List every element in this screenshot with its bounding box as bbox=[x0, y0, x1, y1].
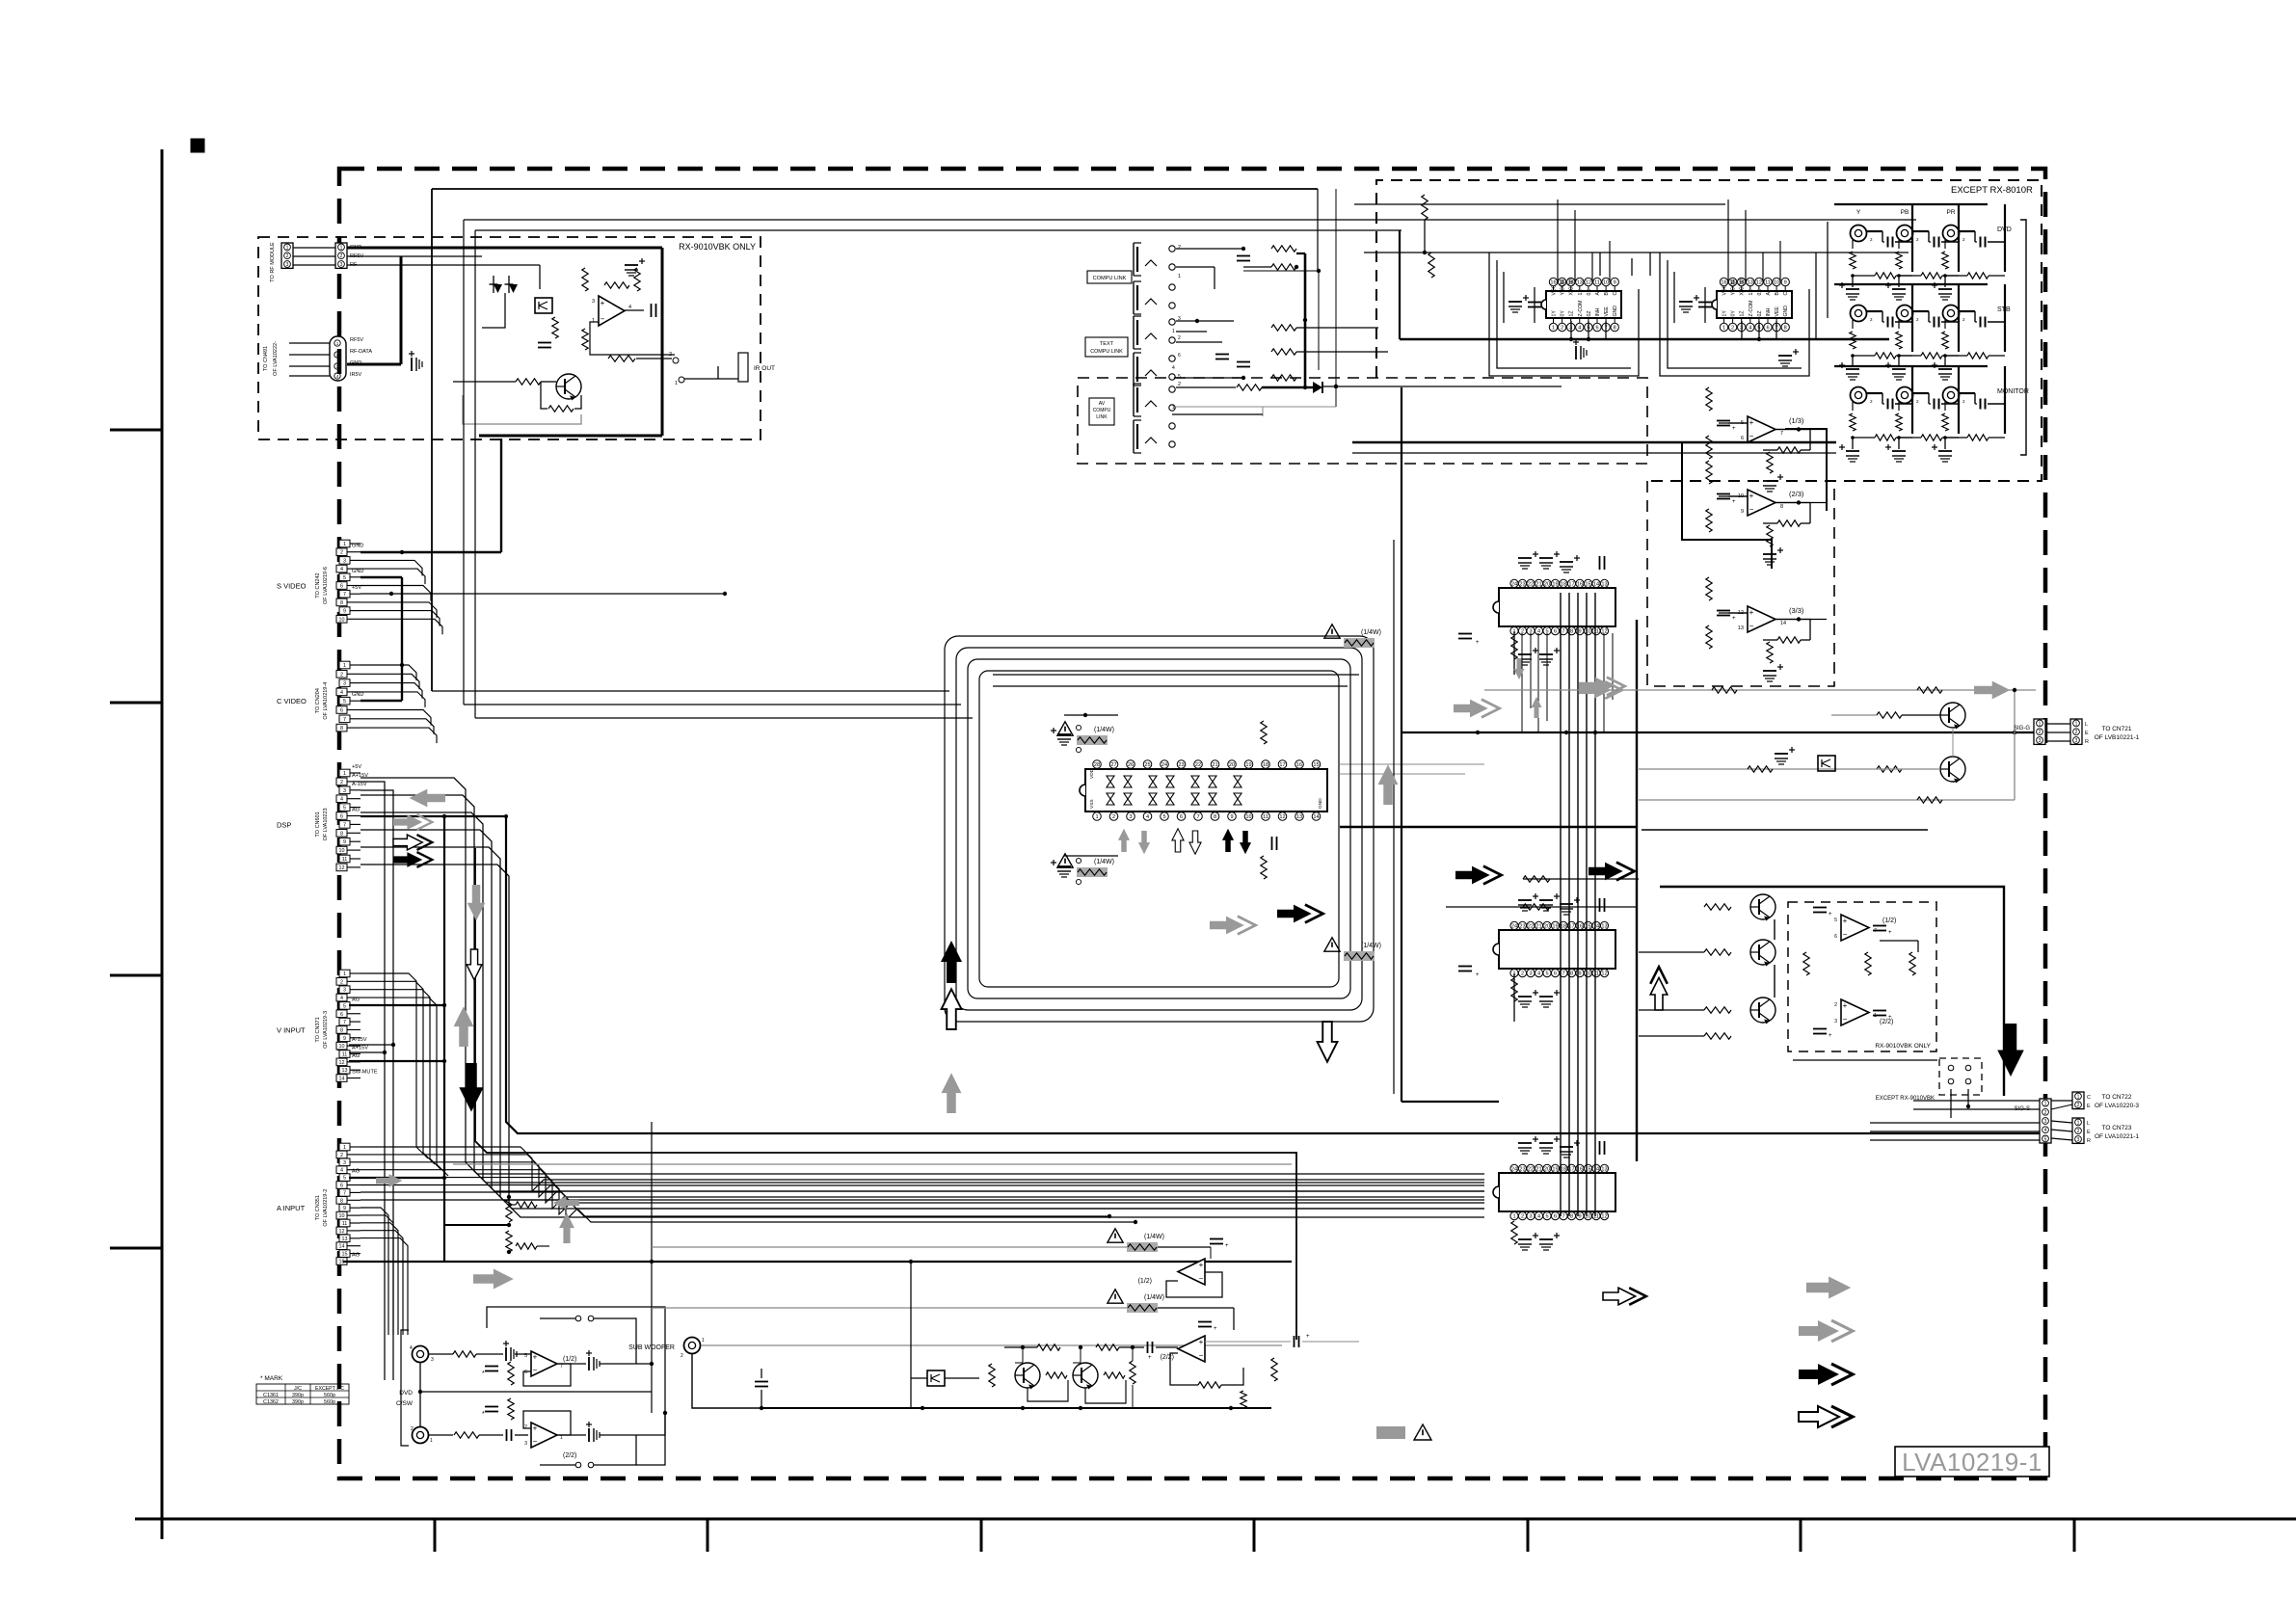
svg-text:−: − bbox=[1199, 1351, 1204, 1360]
svg-text:B: B bbox=[1604, 292, 1610, 296]
svg-text:23: 23 bbox=[1178, 762, 1184, 768]
main board dashed border bbox=[339, 169, 2045, 1478]
svg-text:Y-COM: Y-COM bbox=[1561, 279, 1566, 296]
phone jack textlink A bbox=[1133, 316, 1135, 349]
svg-text:4: 4 bbox=[2044, 1128, 2047, 1133]
wire cn491-2 bbox=[289, 354, 330, 356]
wire u1 rail bbox=[1503, 272, 1505, 323]
svg-text:C VIDEO: C VIDEO bbox=[277, 697, 307, 705]
cap input (3/3) bbox=[1717, 610, 1730, 612]
arrow gray up mid2 bbox=[559, 1212, 574, 1243]
wire tl1 bbox=[1176, 320, 1234, 322]
svg-text:OF LVA10219-2: OF LVA10219-2 bbox=[323, 1189, 329, 1227]
resistor r b1e bbox=[1046, 1372, 1067, 1378]
svg-text:TO CN722: TO CN722 bbox=[2102, 1094, 2132, 1101]
cap bc2 bbox=[1198, 1321, 1212, 1323]
wire u1 top drops bbox=[1557, 200, 1559, 282]
wire bus v0 bbox=[1560, 593, 1562, 1216]
arrow gray up mid bbox=[454, 1006, 474, 1047]
wire bc2 out bbox=[1119, 1346, 1144, 1348]
phone jack compulink B bbox=[1133, 281, 1135, 314]
resistor r dvd1 bbox=[453, 1351, 476, 1357]
wire bundle ainput bbox=[360, 1185, 1484, 1221]
legend gray swatch bbox=[1376, 1426, 1405, 1439]
wire av4 bbox=[1172, 413, 1263, 415]
wire rca rail MONITOR bbox=[1834, 365, 1988, 367]
svg-text:12: 12 bbox=[1586, 280, 1591, 286]
cap ecap (3/3) bbox=[1763, 670, 1776, 672]
wire bundle dsp bbox=[360, 812, 1484, 1191]
svg-text:−: − bbox=[1749, 432, 1754, 440]
transistor Q b2 bbox=[1073, 1363, 1098, 1388]
svg-text:0Z: 0Z bbox=[1587, 310, 1592, 316]
svg-text:11: 11 bbox=[1263, 814, 1268, 820]
capacitor ecap u4 e bbox=[1518, 996, 1532, 998]
wire q sig1 bbox=[1902, 714, 1940, 716]
svg-text:(1/4W): (1/4W) bbox=[1094, 727, 1114, 733]
svg-text:DVD: DVD bbox=[399, 1390, 413, 1397]
svg-text:2: 2 bbox=[1521, 971, 1524, 977]
capacitor ecap below U7 bbox=[1057, 865, 1071, 867]
wire heavy y920 bbox=[1660, 887, 2004, 1096]
svg-text:5: 5 bbox=[524, 1353, 527, 1359]
svg-text:EXCEPT RX-8010R: EXCEPT RX-8010R bbox=[1951, 185, 2033, 196]
svg-text:1: 1 bbox=[1172, 405, 1175, 411]
wire frame u7 a bbox=[945, 636, 1374, 1022]
svg-text:VSS: VSS bbox=[1089, 799, 1095, 809]
wire bc verticals bbox=[1022, 1347, 1024, 1363]
svg-text:2: 2 bbox=[340, 780, 343, 785]
svg-text:14: 14 bbox=[339, 1077, 345, 1082]
cap ecap (2/3) bbox=[1763, 553, 1776, 555]
wire bus B to frames bbox=[464, 704, 961, 705]
wire bundle ainput bbox=[360, 1178, 1484, 1214]
svg-text:2: 2 bbox=[1962, 237, 1965, 242]
resistor r av bbox=[1237, 385, 1262, 390]
resistor fb (1/3) bbox=[1777, 447, 1801, 453]
arrow gray left into DSP bbox=[410, 789, 445, 808]
arrow gray right a bbox=[1454, 700, 1500, 718]
svg-text:INH: INH bbox=[1766, 307, 1772, 316]
svg-text:16: 16 bbox=[1296, 762, 1302, 768]
svg-text:COMPU: COMPU bbox=[1093, 408, 1111, 413]
op-amp (1/2) bc bbox=[1178, 1259, 1205, 1285]
svg-text:10: 10 bbox=[1774, 280, 1779, 286]
wire icD pin drops bbox=[1521, 633, 1523, 732]
svg-text:13: 13 bbox=[1601, 924, 1607, 930]
wire cvideo pin bbox=[360, 728, 437, 743]
svg-text:TO CN723: TO CN723 bbox=[2102, 1125, 2132, 1131]
svg-text:15: 15 bbox=[342, 1252, 348, 1258]
resistor r tl2 bbox=[1271, 349, 1296, 355]
wire q join bbox=[2014, 690, 2016, 800]
wire bus v1 bbox=[1568, 593, 1570, 1216]
resistor gnd (3/3) bbox=[1767, 642, 1773, 663]
svg-text:L: L bbox=[2085, 722, 2088, 728]
svg-text:8: 8 bbox=[1780, 504, 1783, 510]
wire svideo pin bbox=[360, 560, 422, 575]
svg-text:24: 24 bbox=[1511, 924, 1517, 930]
wire cl3 bbox=[1296, 253, 1305, 254]
svg-text:2: 2 bbox=[2077, 1129, 2080, 1134]
wire sig 798 bbox=[1639, 768, 1940, 770]
dashed box video amp section bbox=[1647, 481, 1834, 686]
resistor r bc fb bbox=[1198, 1382, 1221, 1388]
diode D1 bbox=[494, 284, 502, 293]
wire bus v3 bbox=[1586, 593, 1588, 1216]
svg-text:1: 1 bbox=[343, 542, 346, 547]
cap in r1 bbox=[1813, 907, 1827, 909]
svg-text:18: 18 bbox=[1561, 924, 1566, 930]
wire tl3 bbox=[1176, 341, 1222, 343]
svg-text:+: + bbox=[533, 1353, 538, 1362]
wire av1 bbox=[1176, 386, 1236, 388]
svg-text:6: 6 bbox=[1554, 971, 1557, 977]
svg-text:−: − bbox=[1843, 1015, 1848, 1024]
wire bt rail2 bbox=[911, 1412, 1288, 1414]
svg-text:8: 8 bbox=[340, 831, 343, 837]
svg-text:6: 6 bbox=[340, 708, 343, 714]
wire svideo gnd2 heavy bbox=[360, 551, 501, 553]
svg-text:+: + bbox=[1732, 426, 1736, 432]
wire sub cap bbox=[761, 1369, 762, 1378]
capacitor ecap u3 e bbox=[1518, 653, 1532, 655]
switch contacts above U7 bbox=[1076, 725, 1081, 730]
svg-text:6: 6 bbox=[1834, 934, 1837, 940]
wire trunk x676 bbox=[651, 1122, 653, 1413]
svg-text:8: 8 bbox=[340, 1027, 343, 1033]
svg-text:2: 2 bbox=[1112, 814, 1115, 820]
resistor r sig3 bbox=[1748, 766, 1773, 772]
svg-text:(2/2): (2/2) bbox=[563, 1452, 576, 1459]
wire bus v4 bbox=[1594, 593, 1596, 1216]
svg-text:7: 7 bbox=[560, 1364, 563, 1370]
svg-text:(1/2): (1/2) bbox=[1882, 918, 1896, 924]
svg-text:2: 2 bbox=[2044, 1110, 2047, 1116]
wire bundle ainput2 bbox=[360, 1238, 408, 1335]
svg-text:10: 10 bbox=[339, 1213, 345, 1219]
svg-text:(1/4W): (1/4W) bbox=[1144, 1234, 1164, 1240]
arrow gray right sig bbox=[1579, 681, 1622, 699]
warning+res 1/4W u3 bbox=[1344, 638, 1375, 648]
svg-text:+: + bbox=[1829, 1033, 1832, 1039]
wire av3 bbox=[1176, 406, 1336, 408]
connector CN721 (3-pin) bbox=[2070, 719, 2082, 744]
wire rail A-15V bbox=[360, 790, 393, 1045]
capacitor cap u2 bbox=[1698, 302, 1712, 304]
svg-text:1: 1 bbox=[592, 318, 595, 324]
arrow gray right b bbox=[1579, 678, 1625, 696]
legend arrow gray bbox=[1806, 1276, 1851, 1298]
capacitor c tl2 bbox=[1237, 361, 1250, 363]
wire heavy AG vinput12 bbox=[349, 1060, 444, 1062]
svg-text:5: 5 bbox=[2044, 1136, 2047, 1142]
wire rca cell sep MONITOR 2 bbox=[1958, 366, 1960, 434]
wire pc bbox=[911, 1377, 927, 1379]
svg-text:15: 15 bbox=[1585, 582, 1590, 588]
svg-text:3: 3 bbox=[1834, 1019, 1837, 1024]
svg-text:3: 3 bbox=[524, 1441, 527, 1447]
svg-text:9: 9 bbox=[1578, 1214, 1581, 1220]
svg-text:2: 2 bbox=[1870, 317, 1873, 322]
svg-text:3: 3 bbox=[592, 299, 595, 305]
svg-text:13: 13 bbox=[1577, 280, 1583, 286]
dashed box AV COMPU LINK section bbox=[1078, 378, 1647, 464]
photo coupler sig bbox=[1818, 756, 1835, 771]
svg-text:21: 21 bbox=[1535, 582, 1541, 588]
svg-text:A+15V: A+15V bbox=[352, 1046, 368, 1051]
svg-text:7: 7 bbox=[343, 1020, 346, 1025]
svg-text:2: 2 bbox=[1834, 1002, 1837, 1008]
resistor R out bbox=[608, 356, 635, 361]
RCA jack DVD bbox=[413, 1346, 429, 1363]
svg-text:11: 11 bbox=[1593, 629, 1599, 635]
wire bundle ainput bbox=[360, 1170, 1484, 1209]
capacitor cap u1 bbox=[1528, 302, 1541, 304]
svg-text:3: 3 bbox=[1129, 814, 1132, 820]
svg-text:8: 8 bbox=[340, 600, 343, 606]
wire cvideo pin bbox=[360, 674, 419, 689]
svg-text:0Y: 0Y bbox=[1561, 310, 1566, 317]
svg-text:1: 1 bbox=[1552, 326, 1555, 332]
arrow white right f bbox=[1603, 1288, 1646, 1305]
frame tick bottom x1018 bbox=[980, 1519, 983, 1552]
wire bundle vinput bbox=[360, 998, 448, 1176]
svg-text:18: 18 bbox=[1561, 1167, 1566, 1173]
svg-text:COMPU LINK: COMPU LINK bbox=[1090, 349, 1123, 355]
wire top entry bbox=[1354, 203, 1725, 205]
wire svideo pin bbox=[360, 619, 442, 634]
resistor r topnet2 bbox=[1428, 253, 1434, 278]
capacitor c dvd1 bbox=[485, 1366, 498, 1368]
capacitor c2 bbox=[651, 304, 653, 317]
svg-text:−: − bbox=[533, 1366, 538, 1374]
wire bus B top bbox=[464, 219, 1916, 221]
svg-text:EXCEPT J/C: EXCEPT J/C bbox=[315, 1386, 344, 1392]
svg-text:27: 27 bbox=[1110, 762, 1116, 768]
svg-text:Y: Y bbox=[1856, 209, 1861, 216]
svg-text:Y-COM: Y-COM bbox=[1731, 279, 1737, 296]
svg-text:2: 2 bbox=[1561, 326, 1563, 332]
svg-text:SIG-G: SIG-G bbox=[2014, 726, 2030, 732]
wire tl5 bbox=[1296, 327, 1378, 329]
svg-text:−: − bbox=[601, 314, 605, 323]
photo coupler bbox=[535, 298, 552, 313]
wire bc1 loop bbox=[1166, 1272, 1222, 1297]
svg-text:+: + bbox=[1749, 492, 1754, 500]
resistor rr1 bbox=[1803, 952, 1809, 975]
op-amp (2/2) right bbox=[1841, 999, 1869, 1025]
wire bundle vinput bbox=[360, 973, 428, 1158]
svg-text:2: 2 bbox=[340, 1153, 343, 1158]
svg-text:26: 26 bbox=[1128, 762, 1134, 768]
wire bundle dsp bbox=[360, 847, 1484, 1209]
resistor r u4 bbox=[1511, 978, 1517, 1001]
arrow black right d bbox=[1589, 863, 1635, 881]
wire rca cell sep DVD 3 bbox=[2004, 204, 2006, 272]
label box TEXT COMPU LINK bbox=[1085, 337, 1128, 357]
arrow gray down mid bbox=[467, 885, 486, 920]
arrow gray up center bbox=[942, 1073, 962, 1113]
wire dvd outer frame bbox=[487, 1307, 665, 1465]
wire trunk x1446 bbox=[1393, 540, 1395, 1094]
resistor gnd (2/3) bbox=[1767, 525, 1773, 546]
RCA jack CSW bbox=[413, 1427, 429, 1444]
svg-text:2: 2 bbox=[1521, 1214, 1524, 1220]
RCA jack MONITOR 1 bbox=[1851, 387, 1867, 404]
svg-text:5: 5 bbox=[1178, 374, 1181, 380]
cap bc3 bbox=[1147, 1342, 1149, 1353]
wire dvd rail bbox=[420, 1391, 652, 1393]
svg-text:2: 2 bbox=[2075, 730, 2078, 735]
resistor R q1 bbox=[516, 379, 541, 385]
svg-text:2: 2 bbox=[340, 550, 343, 556]
cap input (2/3) bbox=[1717, 493, 1730, 495]
svg-text:TO CN601: TO CN601 bbox=[315, 811, 321, 837]
svg-text:22: 22 bbox=[1528, 1167, 1534, 1173]
resistor r tl3 bbox=[1271, 375, 1296, 381]
svg-text:GND: GND bbox=[1613, 306, 1618, 317]
svg-text:VEE: VEE bbox=[1775, 306, 1780, 317]
wire ic col rail bbox=[1513, 631, 1515, 675]
capacitor ecap u4 b bbox=[1539, 899, 1553, 901]
svg-text:4: 4 bbox=[336, 374, 339, 379]
RCA jack DVD 1 bbox=[1851, 226, 1867, 242]
svg-text:+: + bbox=[1199, 1261, 1204, 1269]
op-amp (2/3) bbox=[1748, 490, 1775, 516]
svg-text:6: 6 bbox=[1554, 629, 1557, 635]
wire svideo pin bbox=[360, 586, 431, 601]
RCA jack STB 2 bbox=[1897, 306, 1913, 322]
wire heavy drop x416 bbox=[400, 256, 403, 364]
arrow gray2 right dsp bbox=[393, 814, 432, 830]
svg-text:1: 1 bbox=[343, 771, 346, 777]
connector CN to RF module (3-pin) bbox=[281, 243, 293, 268]
svg-text:3: 3 bbox=[343, 681, 346, 687]
capacitor ecap below u2 bbox=[1778, 355, 1792, 357]
svg-text:1: 1 bbox=[286, 245, 289, 251]
svg-text:6: 6 bbox=[340, 584, 343, 590]
wire cn721 links bbox=[2045, 723, 2070, 725]
svg-text:2: 2 bbox=[2077, 1103, 2080, 1108]
wire heavy y759 bbox=[1402, 732, 2034, 733]
resistor R mid1 bbox=[506, 1199, 512, 1222]
wire heavy AG dsp bbox=[360, 816, 2045, 1133]
wire u2 top drops bbox=[1727, 200, 1729, 282]
svg-text:20: 20 bbox=[1544, 582, 1550, 588]
svg-text:22: 22 bbox=[1528, 582, 1534, 588]
svg-text:3: 3 bbox=[336, 364, 339, 369]
legend warning triangle bbox=[1414, 1424, 1431, 1440]
svg-text:PB: PB bbox=[1901, 209, 1909, 216]
svg-text:2: 2 bbox=[1916, 317, 1919, 322]
svg-text:5: 5 bbox=[1545, 971, 1548, 977]
wire heavy y941 rail bbox=[1446, 906, 1637, 908]
resistor divider2 (2/3) bbox=[1706, 509, 1712, 532]
resistor r sw2 bbox=[508, 1398, 514, 1420]
frame tick bottom x2152 bbox=[2073, 1519, 2076, 1552]
svg-text:1: 1 bbox=[2077, 1120, 2080, 1126]
resistor r sw bbox=[454, 1432, 479, 1438]
wire cn72x links bbox=[2051, 1100, 2072, 1102]
svg-text:2: 2 bbox=[524, 1424, 527, 1430]
svg-text:8: 8 bbox=[1614, 326, 1616, 332]
svg-text:7: 7 bbox=[343, 592, 346, 598]
arrow white down center bbox=[1318, 1022, 1338, 1062]
svg-text:2: 2 bbox=[340, 253, 343, 259]
wire heavy AG rail bbox=[343, 1261, 1292, 1263]
wire oa2 out bbox=[557, 1434, 586, 1436]
wire sig area 1 bbox=[1484, 689, 2036, 691]
transistor Q b1 bbox=[1015, 1363, 1040, 1388]
svg-text:12: 12 bbox=[1756, 280, 1762, 286]
svg-text:C/SW: C/SW bbox=[396, 1400, 414, 1407]
arrow gray up small d bbox=[1532, 697, 1542, 718]
svg-text:5: 5 bbox=[1162, 814, 1165, 820]
wire rf2 bbox=[293, 255, 335, 257]
svg-text:4: 4 bbox=[1146, 814, 1149, 820]
svg-text:1X: 1X bbox=[1749, 289, 1754, 296]
arrow gray right mid bbox=[1210, 917, 1256, 935]
wire sw drop bbox=[1950, 1089, 1952, 1118]
wire heavy bus y459 bbox=[1352, 441, 1836, 443]
svg-text:1Z: 1Z bbox=[1569, 310, 1575, 316]
wire bundle ainput2 bbox=[360, 1208, 388, 1335]
svg-text:VEE: VEE bbox=[1604, 306, 1610, 317]
svg-text:2: 2 bbox=[340, 979, 343, 985]
bracket dvd bbox=[401, 1330, 409, 1446]
wire heavy bottom leg bbox=[479, 435, 662, 438]
wire top entry2 bbox=[1364, 252, 1909, 253]
svg-text:+: + bbox=[533, 1424, 538, 1433]
arrow black2 right dsp bbox=[393, 852, 432, 867]
legend arrow black2 bbox=[1799, 1364, 1853, 1385]
svg-text:1: 1 bbox=[702, 1338, 705, 1344]
svg-text:1: 1 bbox=[430, 1438, 433, 1444]
svg-text:5: 5 bbox=[343, 806, 346, 811]
svg-text:1: 1 bbox=[343, 971, 346, 977]
svg-text:12: 12 bbox=[1279, 814, 1285, 820]
capacitor ecap u3 f bbox=[1539, 653, 1553, 655]
connector TO CN491 (4-pin oval) bbox=[330, 336, 346, 381]
wire rca cell sep STB 2 bbox=[1958, 284, 1960, 352]
resistor r q sig2 bbox=[1877, 766, 1902, 772]
wire cl2 bbox=[1176, 266, 1215, 268]
svg-text:E: E bbox=[2087, 1130, 2091, 1135]
svg-text:10: 10 bbox=[1245, 814, 1251, 820]
wire heavy AG ainput5 bbox=[349, 1177, 444, 1179]
phone jack compulink A bbox=[1133, 243, 1135, 276]
label box AV COMPU LINK bbox=[1089, 398, 1114, 425]
svg-text:+5V: +5V bbox=[352, 585, 361, 591]
wire mid res h bbox=[444, 1224, 509, 1226]
svg-text:19: 19 bbox=[1552, 1167, 1558, 1173]
wire ir path2 bbox=[453, 381, 516, 383]
svg-text:7: 7 bbox=[343, 822, 346, 828]
svg-text:1: 1 bbox=[343, 663, 346, 669]
capacitor c cl bbox=[1237, 255, 1250, 257]
svg-text:11: 11 bbox=[1593, 971, 1599, 977]
switch pair sw bbox=[575, 1462, 581, 1468]
svg-text:DSP: DSP bbox=[277, 820, 291, 829]
svg-text:9: 9 bbox=[1614, 280, 1616, 286]
svg-text:3: 3 bbox=[1529, 971, 1532, 977]
svg-text:+: + bbox=[1732, 499, 1736, 505]
resistor r q sig1 bbox=[1877, 712, 1902, 718]
arrow white2 right dsp bbox=[393, 835, 432, 850]
wire bundle dsp bbox=[360, 865, 1484, 1217]
op-amp (1/2) right bbox=[1841, 915, 1869, 941]
